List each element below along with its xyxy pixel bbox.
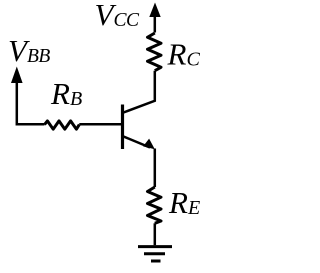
wire (VBB stem and base lead) <box>17 81 45 124</box>
wire (RE to ground) <box>154 223 157 245</box>
wire (emitter vertical) <box>154 149 157 188</box>
transistor Q1 emitter lead <box>124 137 151 148</box>
resistor RC <box>148 33 162 71</box>
wire (VCC stem) <box>154 16 157 33</box>
transistor Q1 collector lead <box>124 71 155 113</box>
transistor Q1 base bar <box>121 105 124 150</box>
resistor RE <box>148 187 162 223</box>
node VBB arrow <box>11 67 23 84</box>
node VCC arrow <box>149 3 160 18</box>
wire (RB to base) <box>79 123 121 126</box>
ground <box>138 247 172 261</box>
transistor Q1 emitter arrowhead <box>143 139 155 150</box>
resistor RB <box>45 121 80 129</box>
